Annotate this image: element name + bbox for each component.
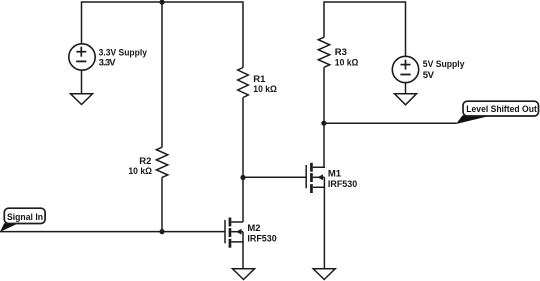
label R1 "R1 / 10 kΩ" xyxy=(253,74,277,95)
svg-text:5V Supply: 5V Supply xyxy=(423,59,465,70)
svg-text:10 kΩ: 10 kΩ xyxy=(128,166,152,177)
flag Level Shifted Out box xyxy=(463,101,539,116)
ground symbol (V1) xyxy=(71,94,93,105)
wire M1 source to ground xyxy=(323,187,325,269)
wire R1 bottom to M2 drain xyxy=(242,98,244,223)
transistor M2 body lead xyxy=(231,231,243,233)
wire top-left rail (3.3V net) xyxy=(82,2,244,68)
svg-text:IRF530: IRF530 xyxy=(328,179,357,190)
V1 plus sign xyxy=(76,47,86,57)
flag Level Shifted Out pointer xyxy=(456,115,492,124)
wire top-right rail (5V net) xyxy=(324,2,406,56)
transistor M1 source lead and body tie xyxy=(313,177,325,187)
node junction: R2 top on 3.3V rail xyxy=(159,0,164,5)
transistor M1 body lead xyxy=(313,176,325,178)
transistor M1 channel bars xyxy=(310,163,313,193)
resistor R1 zigzag xyxy=(238,68,249,98)
transistor M2 source lead and body tie xyxy=(231,232,243,242)
label R3 "R3 / 10 kΩ" xyxy=(335,47,359,69)
wire V2 bottom to ground xyxy=(405,83,407,94)
svg-text:Signal In: Signal In xyxy=(7,212,43,223)
svg-text:10 kΩ: 10 kΩ xyxy=(253,84,277,95)
transistor M2 body arrow xyxy=(236,229,242,235)
svg-text:10 kΩ: 10 kΩ xyxy=(335,58,359,69)
label M1 "M1 / IRF530" xyxy=(328,169,357,190)
label M2 "M2 / IRF530" xyxy=(247,223,276,244)
transistor M2 drain lead xyxy=(231,221,243,223)
ground symbol (V2) xyxy=(395,94,417,105)
transistor M1 body arrow xyxy=(317,174,323,180)
V1 minus sign xyxy=(76,60,86,62)
label V1 "3.3V Supply / 3.3V" xyxy=(99,48,148,69)
transistor M1 gate bar xyxy=(305,165,307,188)
ground symbol (M2) xyxy=(233,269,255,280)
wire M1 gate lead xyxy=(243,176,306,178)
svg-text:IRF530: IRF530 xyxy=(247,233,276,244)
wire R2 lower segment to signal net xyxy=(161,177,163,231)
node junction: M1 gate tap on R1/M2-drain net xyxy=(240,175,245,180)
flag Signal In box xyxy=(4,208,45,223)
voltage source V1 3.3V body xyxy=(69,44,95,70)
ground symbol (M1) xyxy=(313,269,335,280)
voltage source V2 5V body xyxy=(392,56,418,82)
resistor R3 zigzag xyxy=(318,37,329,67)
V2 minus sign xyxy=(400,74,410,76)
svg-text:Level Shifted Out: Level Shifted Out xyxy=(466,104,537,115)
wire R3 bottom to out node and M1 drain xyxy=(323,67,325,167)
wire V1 bottom to ground xyxy=(81,70,83,94)
wire level shifted out net xyxy=(324,122,457,124)
wire signal-in net xyxy=(0,231,225,233)
transistor M1 drain lead xyxy=(313,166,325,168)
svg-text:R3: R3 xyxy=(335,47,347,58)
label V2 "5V Supply / 5V" xyxy=(423,59,465,81)
V2 plus sign xyxy=(401,60,411,70)
svg-text:5V: 5V xyxy=(423,70,435,81)
wire M2 source to ground xyxy=(242,242,244,269)
label R2 "R2 / 10 kΩ" xyxy=(128,156,152,177)
transistor M2 gate bar xyxy=(224,220,226,243)
resistor R2 zigzag xyxy=(156,147,167,177)
node junction: R2 bottom on signal net xyxy=(159,229,164,234)
svg-text:3.3V: 3.3V xyxy=(99,57,117,68)
node junction: level-shifted-out tap xyxy=(321,121,326,126)
flag Signal In pointer xyxy=(0,223,19,232)
transistor M2 channel bars xyxy=(229,218,232,248)
wire R2 upper segment xyxy=(161,2,163,147)
